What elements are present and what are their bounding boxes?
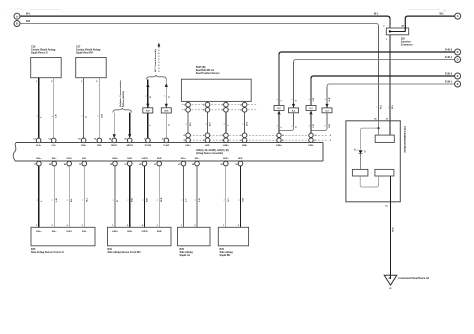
- page link circle D-46-1: [455, 57, 461, 63]
- wire to page link D-46-3: [279, 52, 455, 55]
- pin MPX1: [112, 138, 117, 143]
- wire D-36-3 vertical: [310, 79, 312, 106]
- svg-text:G: G: [86, 116, 88, 118]
- B105 pin 4 stub: [244, 100, 246, 103]
- svg-text:ESR: ESR: [157, 231, 162, 233]
- pin VUPR: [142, 161, 147, 166]
- svg-text:1: 1: [292, 126, 294, 127]
- svg-text:SSR+: SSR+: [112, 158, 118, 160]
- svg-text:SSL-: SSL-: [52, 158, 57, 160]
- wire from band to lower box at x=240.5: [240, 166, 242, 227]
- svg-text:MPX2: MPX2: [127, 145, 134, 147]
- pin SFR+: [224, 161, 229, 166]
- svg-text:v: v: [388, 107, 390, 108]
- wire C17 pin2 to CR2-: [98, 78, 100, 139]
- page link circle D-36-3: [455, 73, 461, 79]
- svg-text:W-R: W-R: [161, 197, 163, 202]
- ground Instrument Panel Brace LH: [384, 275, 397, 285]
- svg-text:Connector: Connector: [401, 44, 413, 47]
- pin ESL: [82, 161, 87, 166]
- svg-text:CR2+: CR2+: [81, 145, 87, 147]
- ground wire W-B: [390, 202, 392, 279]
- wire MPX1 with down arrow: [113, 113, 115, 137]
- output wire from block 3 down: [390, 176, 392, 202]
- wire from band to lower box at x=225.8: [225, 166, 227, 227]
- svg-text:1: 1: [157, 200, 159, 201]
- svg-text:1: 1: [146, 96, 148, 97]
- pin CL2+: [36, 138, 41, 143]
- pin CR2+: [81, 138, 86, 143]
- in-line connector box IL2: [289, 108, 299, 113]
- svg-text:L-Y: L-Y: [186, 198, 188, 202]
- svg-text:A: A: [16, 14, 18, 18]
- svg-text:SSR+: SSR+: [112, 231, 118, 233]
- svg-text:1: 1: [239, 200, 241, 201]
- brace over MPX wires: [113, 108, 132, 113]
- svg-text:CR2-: CR2-: [97, 145, 102, 147]
- svg-text:W-L: W-L: [86, 197, 88, 202]
- svg-text:Y-R: Y-R: [313, 97, 315, 101]
- svg-text:1: 1: [243, 124, 245, 125]
- svg-text:Squib Rear RH: Squib Rear RH: [76, 52, 93, 55]
- wire C17 pin1 to CR2+: [83, 78, 85, 139]
- in-line connector box R17: [146, 104, 149, 108]
- wire from band to lower box at x=144.5: [144, 166, 146, 227]
- connector circle C top right: [455, 13, 461, 19]
- component B71 Side Airbag Squib RH: [218, 227, 248, 246]
- pin SSR+: [113, 161, 118, 166]
- svg-text:G: G: [296, 126, 298, 128]
- wire P1SW with up arrow: [147, 80, 149, 108]
- wire junction to right circle C (W-L): [405, 16, 454, 31]
- wire from band to lower box at x=183.5: [183, 166, 185, 227]
- wire column 1 down to lower pair: [187, 112, 189, 133]
- svg-text:P-SW: P-SW: [163, 145, 170, 147]
- svg-text:L-R: L-R: [56, 114, 58, 118]
- component B70 Side Airbag Squib LH: [178, 227, 211, 246]
- pin SSL+: [37, 161, 42, 166]
- svg-text:SSL+: SSL+: [36, 158, 42, 160]
- svg-text:R-B: R-B: [132, 198, 134, 202]
- svg-text:A24(A), 29, A21(B), A22(C), (E: A24(A), 29, A21(B), A22(C), (E): [196, 149, 229, 152]
- wire P-SW with up arrow: [165, 80, 167, 108]
- svg-text:1: 1: [224, 124, 226, 125]
- svg-text:1: 1: [128, 200, 130, 201]
- svg-text:Side Airbag Sensor Front RH: Side Airbag Sensor Front RH: [108, 251, 141, 254]
- meter internal block 3: [375, 169, 394, 176]
- svg-text:Instrument Panel Brace LH: Instrument Panel Brace LH: [399, 277, 430, 280]
- component C10 Combination Meter: [346, 121, 400, 202]
- svg-text:LBB+: LBB+: [223, 145, 229, 147]
- in-line connector box R18: [165, 104, 168, 108]
- wire pair merge PSB+: [279, 113, 294, 131]
- pin P-SW: [164, 138, 169, 143]
- svg-text:E: E: [457, 74, 459, 78]
- svg-text:LBP+: LBP+: [185, 145, 191, 147]
- wire W-L from A to junction connector: [20, 16, 390, 19]
- svg-text:1: 1: [195, 200, 197, 201]
- wire D-46-3 vertical: [278, 55, 280, 106]
- svg-text:VUPR: VUPR: [141, 231, 147, 233]
- connector circle B (second, B-R wire): [14, 21, 20, 27]
- svg-text:Airbag Sensor Assembly: Airbag Sensor Assembly: [196, 152, 224, 155]
- svg-text:G: G: [168, 124, 170, 126]
- pin SSL-: [52, 161, 57, 166]
- in-line connector box IL2: [274, 106, 284, 111]
- meter internal block 2: [352, 169, 368, 176]
- dashed connector grouping upper rows: [182, 104, 257, 106]
- svg-text:W-L: W-L: [381, 104, 383, 109]
- wire from band to lower box at x=115.0: [114, 166, 116, 227]
- svg-text:Multiplex Communication: Multiplex Communication: [119, 80, 122, 107]
- svg-text:v: v: [377, 107, 379, 108]
- svg-text:MPX1: MPX1: [111, 145, 118, 147]
- svg-text:G-R: G-R: [101, 114, 103, 118]
- svg-text:Side Airbag Sensor Front LH: Side Airbag Sensor Front LH: [31, 251, 64, 254]
- component B15 Side Airbag Sensor Front LH: [31, 227, 95, 246]
- page link circle D-36-1: [455, 81, 461, 87]
- pin SFL-: [195, 161, 200, 166]
- pin SSR-: [127, 161, 132, 166]
- svg-text:W-L: W-L: [440, 13, 445, 16]
- svg-text:Y-R: Y-R: [313, 124, 315, 128]
- MPX dashed leader stub: [121, 103, 123, 107]
- B105 pin 3 stub: [225, 100, 227, 103]
- svg-text:D-36-1: D-36-1: [445, 82, 453, 84]
- wire from band to lower box at x=69.2: [68, 166, 70, 227]
- svg-text:VUPL: VUPL: [66, 231, 72, 233]
- pin SFL+: [181, 161, 186, 166]
- dashed connector grouping lower rows: [183, 134, 328, 136]
- svg-text:1: 1: [82, 200, 84, 201]
- svg-text:ESR: ESR: [157, 158, 162, 160]
- svg-text:CL2-: CL2-: [51, 145, 56, 147]
- svg-text:D: D: [457, 58, 459, 62]
- svg-text:G: G: [296, 100, 298, 102]
- svg-text:1: 1: [67, 200, 69, 201]
- wire pair merge PSB-: [311, 113, 327, 131]
- svg-text:D-46-3: D-46-3: [445, 49, 453, 52]
- svg-text:A/C Control Assembly: A/C Control Assembly: [154, 48, 157, 72]
- svg-text:W-L: W-L: [374, 13, 379, 16]
- pin SFR-: [238, 161, 243, 166]
- page link circle D-46-3: [455, 49, 461, 55]
- band left break squiggle: [13, 143, 16, 161]
- svg-text:CL2+: CL2+: [36, 145, 42, 147]
- wire from band to lower box at x=129.7: [129, 166, 131, 227]
- connector circle A (top left, W-L wire): [14, 13, 20, 19]
- pin P1SW: [146, 138, 151, 143]
- svg-text:E: E: [457, 82, 459, 86]
- svg-text:1: 1: [309, 126, 311, 127]
- pin VUPL: [67, 161, 72, 166]
- internal branch to diode: [361, 128, 379, 150]
- svg-text:SSL+: SSL+: [36, 231, 42, 233]
- svg-text:L-B: L-B: [56, 198, 58, 202]
- svg-text:1: 1: [277, 126, 279, 127]
- svg-text:2: 2: [52, 116, 54, 117]
- svg-text:SFL+: SFL+: [181, 158, 187, 160]
- svg-text:1: 1: [186, 124, 188, 125]
- svg-text:1: 1: [206, 124, 208, 125]
- B105 pin 2 stub: [207, 100, 209, 103]
- wire B-R from B to combination meter: [20, 24, 378, 27]
- svg-text:1: 1: [224, 200, 226, 201]
- wire to page link D-46-1: [294, 60, 455, 63]
- wire 27 into block 1: [389, 121, 391, 135]
- svg-text:ESL: ESL: [82, 158, 87, 160]
- wire down into junction connector pin 2: [389, 19, 391, 28]
- svg-text:1: 1: [309, 99, 311, 100]
- svg-text:B-R: B-R: [26, 20, 31, 23]
- svg-text:ESL: ESL: [82, 231, 87, 233]
- wire junction pin1 down to combination meter: [389, 35, 391, 121]
- svg-text:Seat Position Sensor: Seat Position Sensor: [196, 72, 220, 75]
- svg-text:VUPR: VUPR: [141, 158, 147, 160]
- svg-text:B-R: B-R: [147, 198, 149, 202]
- internal link block2 to block3: [360, 176, 378, 187]
- svg-text:1: 1: [37, 116, 39, 117]
- svg-text:A: A: [457, 14, 459, 18]
- wire from band to lower box at x=197.0: [196, 166, 198, 227]
- junction connector J29 box: [386, 28, 408, 35]
- wire to page link D-36-3: [311, 76, 455, 79]
- svg-text:1: 1: [325, 99, 327, 100]
- svg-text:1: 1: [292, 99, 294, 100]
- wire down to combination meter pin: [378, 26, 380, 121]
- diode (SRS warning light driver): [358, 150, 362, 153]
- svg-text:SFR-: SFR-: [238, 158, 243, 160]
- wire column 2 down to lower pair: [207, 112, 209, 133]
- svg-text:S-RS AIRBAG: S-RS AIRBAG: [7, 7, 24, 11]
- wire from band to lower box at x=38.9: [38, 166, 40, 227]
- svg-text:LBB-: LBB-: [242, 145, 247, 147]
- pin ESR: [157, 161, 162, 166]
- component Airbag Sensor Assembly band: [16, 142, 323, 144]
- diode to lamp block: [360, 153, 362, 169]
- svg-text:SSR-: SSR-: [127, 231, 132, 233]
- brace over A/C wires: [146, 75, 166, 80]
- svg-text:B: B: [16, 22, 18, 26]
- wire C16 pin2 to CL2-: [53, 78, 55, 139]
- svg-text:1: 1: [82, 116, 84, 117]
- svg-text:G-R: G-R: [329, 124, 331, 128]
- svg-text:W-B: W-B: [391, 228, 393, 233]
- wire column 4 down to lower pair: [244, 112, 246, 133]
- svg-text:C10 Combination Meter: C10 Combination Meter: [403, 126, 406, 153]
- svg-text:1: 1: [143, 200, 145, 201]
- meter internal block 1: [375, 135, 394, 142]
- junction node dot: [377, 127, 379, 129]
- wire MPX2 with down arrow: [129, 113, 131, 137]
- in-line connector box IL3: [322, 108, 332, 113]
- svg-text:W-L: W-L: [392, 104, 394, 109]
- svg-text:SFL-: SFL-: [195, 158, 200, 160]
- svg-text:1: 1: [277, 99, 279, 100]
- wire column 3 down to lower pair: [225, 112, 227, 133]
- svg-text:G-R: G-R: [243, 198, 245, 202]
- svg-text:VUPL: VUPL: [66, 158, 72, 160]
- pin MPX2: [127, 138, 132, 143]
- svg-text:P1SW: P1SW: [145, 145, 152, 147]
- pin CL2-: [51, 138, 56, 143]
- svg-text:Squib Rear LH: Squib Rear LH: [31, 52, 48, 55]
- svg-text:1: 1: [182, 200, 184, 201]
- svg-text:D-36-3: D-36-3: [445, 74, 453, 76]
- pin CR2-: [97, 138, 102, 143]
- svg-text:2: 2: [97, 116, 99, 117]
- svg-text:SFR+: SFR+: [223, 158, 229, 160]
- junction connector internal bus: [390, 30, 405, 32]
- svg-text:SSR-: SSR-: [127, 158, 132, 160]
- svg-text:W-L: W-L: [26, 13, 31, 16]
- wire from band to lower box at x=84.3: [83, 166, 85, 227]
- svg-text:1: 1: [113, 200, 115, 201]
- wire from band to lower box at x=159.2: [158, 166, 160, 227]
- svg-text:LBP-: LBP-: [205, 145, 210, 147]
- in-line connector box IL3: [306, 106, 316, 111]
- wire D-46-1 vertical: [293, 62, 295, 108]
- connector circles B105(A)/B105(B) pairs: [186, 102, 191, 107]
- svg-text:SSL-: SSL-: [52, 231, 57, 233]
- svg-text:PSB-: PSB-: [308, 145, 313, 147]
- svg-text:G-R: G-R: [329, 97, 331, 101]
- B105 pin 1 stub: [187, 100, 189, 103]
- svg-text:1: 1: [325, 126, 327, 127]
- svg-text:2: 2: [164, 96, 166, 97]
- wire C16 pin1 to CL2+: [38, 78, 40, 139]
- wire D-36-1 vertical: [326, 87, 328, 108]
- svg-text:Squib LH: Squib LH: [180, 254, 191, 257]
- svg-text:G: G: [168, 96, 170, 98]
- lower connector pair circles x=311.0: [309, 133, 313, 137]
- wire to page link D-36-1: [327, 84, 455, 87]
- svg-text:1: 1: [52, 200, 54, 201]
- svg-text:Squib RH: Squib RH: [220, 254, 231, 257]
- svg-text:D: D: [457, 50, 459, 54]
- wire from band to lower box at x=54.2: [53, 166, 55, 227]
- svg-text:G-Y: G-Y: [228, 198, 230, 202]
- svg-text:1: 1: [37, 200, 39, 201]
- internal wire from pin into node: [378, 121, 380, 135]
- component B16 Side Airbag Sensor Front RH: [108, 227, 172, 246]
- svg-text:L-R: L-R: [199, 198, 201, 202]
- lower connector pair circles x=279.0: [277, 133, 281, 137]
- svg-text:PSB+: PSB+: [276, 145, 282, 147]
- svg-text:D-46-1: D-46-1: [445, 56, 453, 59]
- svg-text:System (B65IH): System (B65IH): [122, 91, 125, 107]
